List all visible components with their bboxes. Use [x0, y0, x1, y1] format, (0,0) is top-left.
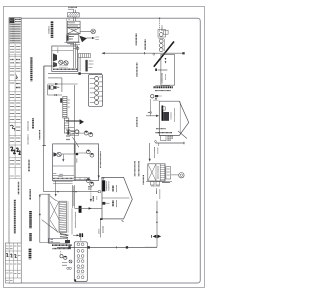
wire clarifier outlet pipe — [149, 141, 159, 162]
node outfall labels bottom — [99, 218, 124, 237]
flow meter FM1 — [171, 173, 184, 178]
title block project title vertical text — [14, 200, 16, 234]
node tank bottom text band — [53, 66, 78, 70]
grit classifier dark band — [85, 60, 93, 72]
wire return line horizontal — [44, 177, 101, 197]
intermediate tank T5 — [102, 177, 132, 219]
pump stack P5 — [158, 30, 168, 52]
gate valve black bar V1 — [101, 177, 109, 191]
wire drain drop and gate G3 — [72, 208, 83, 240]
pipe label near top right — [159, 18, 162, 33]
title block signature cells mid — [9, 81, 21, 179]
clarifier hopper details — [156, 131, 188, 144]
bioreactor tank T2 — [53, 144, 99, 184]
node tank T5 labels — [113, 185, 117, 208]
clarifier pump cluster P6 — [151, 86, 170, 101]
node filter drain label — [157, 189, 160, 200]
title block drawing number vertical text — [18, 182, 20, 195]
mixer M1 M2 top — [67, 130, 93, 147]
deodorizer unit U1 — [67, 21, 80, 27]
pump P4 in tank — [53, 152, 78, 162]
UV disinfection bank U3 — [74, 242, 87, 282]
sludge pumps P8 — [60, 240, 72, 269]
pump P1 — [59, 60, 63, 64]
node left labels mid — [28, 118, 40, 171]
tank T6 lower box — [49, 239, 72, 249]
blower station B1 — [89, 75, 103, 107]
inlet pump station tank T1 — [52, 46, 78, 71]
title block bottom table — [5, 243, 21, 283]
grit chamber ladder — [79, 54, 91, 58]
silencer SL1 — [67, 13, 79, 17]
title block certificate rows — [9, 23, 21, 44]
gate valve black bar V2 — [72, 185, 101, 213]
fine screen building outline — [153, 53, 175, 85]
title block strip frame — [9, 18, 21, 283]
clarifier media block — [162, 106, 175, 123]
fan F1 — [80, 29, 95, 34]
node exhaust outlet label — [68, 7, 77, 9]
node vertical pipe labels top — [52, 22, 145, 50]
circulation pumps P7 — [86, 179, 94, 203]
node lift pump label left — [30, 57, 32, 81]
filter bottom fittings — [146, 182, 172, 187]
wire mixed liquor pipe down — [98, 148, 101, 179]
wire downcomer pipe to selector — [66, 85, 84, 154]
filter unit T4 — [148, 164, 171, 181]
collector hood cluster — [67, 35, 87, 44]
wire waste pipe left drop — [39, 194, 60, 242]
membrane tank T6 — [40, 194, 59, 243]
wire filter discharge down pipe — [145, 201, 161, 248]
wire outlet channel lines — [48, 72, 102, 92]
title block signature cells upper — [9, 44, 21, 81]
node label column beside deodorizer — [67, 19, 71, 43]
junction cluster below valve — [93, 196, 110, 205]
grit washer ladder lower — [64, 118, 70, 140]
membrane media band — [59, 201, 69, 237]
node bio tank corner texts — [53, 173, 63, 176]
wire clarifier inlet arrow — [146, 99, 159, 117]
deodorizer unit U2 — [67, 28, 80, 34]
screw conveyor SC1 — [154, 42, 174, 67]
node influent title label — [49, 21, 52, 38]
wire screen channel verticals — [73, 43, 80, 72]
clarifier tank T3 — [159, 101, 188, 135]
coarse screen channel text row — [65, 35, 100, 49]
pump cluster P3 — [48, 84, 63, 96]
title block logo box — [10, 18, 21, 23]
node labels mid right — [135, 63, 150, 185]
node clarifier internal labels — [156, 129, 173, 133]
wire perimeter main line — [21, 18, 200, 283]
node left bold labels lower — [29, 189, 32, 259]
wire main effluent line — [57, 246, 157, 248]
pump P2 — [64, 61, 68, 65]
sheet border — [3, 7, 204, 288]
node fine screen name label — [154, 87, 174, 90]
wire inlet L pipe — [43, 66, 53, 192]
wire influent header pipe — [101, 52, 184, 54]
mixer M3 M4 — [77, 150, 94, 163]
wire exhaust stack duct — [73, 10, 75, 21]
airlift screw ladder — [60, 97, 70, 119]
